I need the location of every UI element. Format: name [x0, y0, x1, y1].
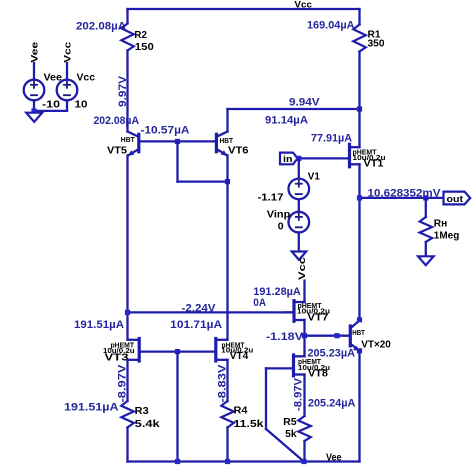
wire VT1 source down — [358, 164, 360, 319]
svg-text:R3: R3 — [135, 405, 149, 417]
svg-text:Vinp: Vinp — [267, 208, 291, 220]
svg-text:191.51µA: 191.51µA — [74, 319, 124, 331]
wire 9.94V node line — [228, 108, 360, 110]
junction at VT6 emitter line — [225, 179, 230, 184]
svg-text:-1.17: -1.17 — [258, 191, 284, 203]
junction R5 at rail — [301, 459, 306, 464]
svg-text:0A: 0A — [253, 297, 266, 309]
svg-text:91.14µA: 91.14µA — [265, 115, 308, 127]
wire Vcc bottom down — [66, 100, 68, 111]
wire Vcc tie down to VT7 — [303, 281, 305, 303]
svg-text:205.24µA: 205.24µA — [308, 397, 356, 409]
wire VT8 gate down — [265, 368, 267, 429]
svg-text:9.97V: 9.97V — [117, 75, 129, 107]
resistor R3 — [121, 401, 134, 428]
source V1 — [258, 170, 320, 203]
wire VT8 source down to R5 — [303, 375, 305, 417]
transistor VT3 (pHEMT, gate right) — [103, 339, 178, 364]
svg-text:191.51µA: 191.51µA — [64, 402, 119, 414]
source Vee battery — [24, 80, 45, 101]
svg-text:VT×20: VT×20 — [361, 338, 391, 350]
svg-text:5k: 5k — [285, 428, 297, 440]
resistor R4 — [221, 401, 234, 428]
svg-text:VT1: VT1 — [364, 157, 384, 169]
resistor R2 — [121, 24, 134, 51]
port in — [280, 153, 298, 165]
svg-text:169.04µA: 169.04µA — [307, 20, 355, 32]
svg-text:V1: V1 — [308, 170, 320, 182]
transistor VT8 (pHEMT, gate left) — [266, 355, 330, 379]
wire VT8 gate diagonal to rail — [266, 429, 304, 461]
svg-text:191.28µA: 191.28µA — [253, 286, 301, 298]
junction gates wire at rail — [175, 459, 180, 464]
svg-text:R4: R4 — [234, 405, 248, 417]
svg-text:R2: R2 — [134, 29, 147, 41]
wire R3 down to rail — [126, 428, 128, 462]
ground under RH — [418, 256, 434, 265]
svg-text:in: in — [283, 154, 293, 165]
svg-text:350: 350 — [368, 38, 385, 50]
svg-text:VT3: VT3 — [105, 351, 129, 363]
wire VT3 source down — [126, 360, 128, 401]
wire RH down — [425, 242, 427, 256]
svg-text:VT5: VT5 — [107, 144, 127, 156]
wire R4 down to rail — [226, 428, 228, 462]
svg-text:-10: -10 — [42, 98, 60, 110]
svg-text:VT8: VT8 — [308, 367, 328, 379]
svg-text:-1.18V: -1.18V — [266, 331, 304, 343]
svg-text:202.08µA: 202.08µA — [76, 21, 126, 33]
resistor R5 — [298, 416, 311, 441]
svg-text:150: 150 — [135, 41, 154, 53]
svg-text:Rн: Rн — [434, 218, 448, 230]
junction battery node — [31, 108, 36, 113]
junction R4 at rail — [225, 459, 230, 464]
wire — [358, 9, 360, 25]
junction -2.24V at left column — [125, 310, 130, 315]
junction on base wire — [334, 333, 339, 338]
ground battery — [26, 113, 42, 122]
svg-text:-8.97V: -8.97V — [293, 377, 305, 411]
wire base node down — [176, 141, 178, 181]
wire VT6 emitter down to VT4 — [226, 155, 228, 339]
wire VT6 collector up — [226, 109, 228, 132]
wire Vee bottom down — [33, 100, 35, 113]
svg-text:Vcc: Vcc — [77, 72, 96, 83]
transistor VT1 (pHEMT, gate left) — [298, 144, 386, 169]
wire R1 down to VT1 — [358, 52, 360, 148]
wire base line VT5-VT6 — [140, 140, 215, 142]
svg-text:Vee: Vee — [30, 42, 41, 63]
resistor RH — [420, 217, 433, 242]
svg-text:Vcc: Vcc — [63, 42, 74, 63]
wire gates node down to rail — [176, 352, 178, 462]
svg-text:10: 10 — [75, 98, 88, 110]
source Vcc battery — [57, 80, 78, 101]
transistor VT4 (pHEMT, gate left) — [178, 339, 254, 363]
wire VT7 source down to VT8 — [303, 320, 305, 356]
wire out node — [360, 197, 444, 199]
svg-text:9.94V: 9.94V — [289, 96, 320, 108]
svg-text:-10.57µA: -10.57µA — [141, 125, 190, 137]
svg-text:Vcc: Vcc — [297, 257, 308, 280]
wire RH up — [425, 198, 427, 217]
junction out node at RH — [423, 195, 428, 200]
wire to VT6 emitter — [178, 180, 228, 182]
wire — [33, 63, 35, 80]
wire R5 down — [303, 441, 305, 462]
source Vinp — [267, 208, 309, 232]
svg-text:VT7: VT7 — [307, 312, 328, 324]
junction -1.18V node — [302, 333, 307, 338]
svg-text:VT4: VT4 — [230, 350, 249, 362]
svg-text:5.4k: 5.4k — [135, 418, 160, 430]
wire VT5 emitter down / left column — [126, 155, 128, 339]
svg-text:Vee: Vee — [326, 453, 342, 464]
svg-text:0: 0 — [278, 220, 284, 232]
wire — [126, 9, 128, 24]
wire in node down to V1 — [298, 158, 300, 178]
svg-text:101.71µA: 101.71µA — [170, 319, 222, 331]
junction base node — [175, 139, 180, 144]
svg-text:10.628352mV: 10.628352mV — [368, 187, 442, 199]
transistor VT20 (HBT x20, base left) — [350, 321, 391, 351]
svg-text:205.23µA: 205.23µA — [308, 347, 356, 359]
svg-text:HBT: HBT — [121, 137, 136, 144]
svg-text:11.5k: 11.5k — [234, 418, 264, 430]
junction VT20 emitter — [357, 348, 362, 353]
wire Vee bottom rail — [128, 460, 360, 462]
junction VT20 collector — [357, 317, 362, 322]
wire VT4 source down — [226, 360, 228, 401]
wire joining bottoms — [34, 110, 67, 112]
resistor R1 — [353, 25, 366, 52]
svg-text:-2.24V: -2.24V — [182, 302, 217, 314]
svg-text:R5: R5 — [283, 416, 297, 428]
svg-text:VT6: VT6 — [228, 144, 249, 156]
svg-text:202.08µA: 202.08µA — [94, 115, 140, 127]
wire -1.18V node to VT20 base — [305, 335, 350, 337]
wire V1 to Vinp — [298, 199, 300, 212]
svg-text:Vcc: Vcc — [294, 0, 312, 10]
svg-text:HBT: HBT — [352, 330, 365, 337]
transistor VT7 (pHEMT, gate left) — [285, 301, 330, 324]
junction in node — [296, 156, 301, 161]
junction 9.94V line to R1 — [357, 106, 362, 111]
wire Vinp down — [298, 232, 300, 251]
transistor VT5 (HBT, base right) — [107, 132, 139, 157]
port out — [444, 192, 471, 205]
svg-text:out: out — [447, 194, 464, 205]
wire Vcc top rail — [128, 8, 360, 10]
transistor VT6 (HBT, base left) — [216, 132, 248, 157]
junction gates node — [175, 349, 180, 354]
svg-text:1Meg: 1Meg — [434, 230, 460, 242]
wire — [126, 51, 128, 132]
wire VT20 emitter down — [358, 351, 360, 462]
wire -2.24V gate line — [128, 311, 293, 313]
junction out node at column — [357, 195, 362, 200]
wire — [66, 63, 68, 80]
ground under Vinp — [292, 252, 306, 260]
svg-text:77.91µA: 77.91µA — [311, 132, 352, 144]
